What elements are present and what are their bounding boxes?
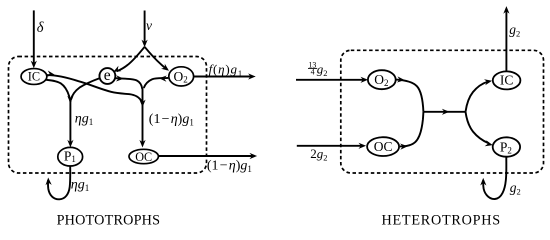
svg-text:e: e: [104, 67, 111, 84]
wire O2r to junction: [396, 80, 424, 112]
wire P2 self loop: [483, 157, 506, 199]
node O2 left: [169, 67, 194, 86]
svg-text:OC: OC: [135, 150, 152, 164]
node P2: [493, 137, 520, 156]
wire IC to P1: [44, 80, 70, 102]
wire 2 g2 input: [297, 145, 363, 147]
svg-text:ηg1: ηg1: [75, 112, 93, 128]
wire nu input: [144, 11, 146, 45]
svg-text:IC: IC: [500, 72, 514, 87]
node e: [99, 68, 115, 84]
wire delta input: [33, 10, 35, 65]
wire IC up export g2: [505, 10, 507, 72]
wire nu to e: [117, 47, 145, 71]
label 13/4 g2: [308, 60, 328, 78]
svg-text:δ: δ: [37, 20, 44, 36]
wire P1 self loop: [48, 165, 70, 199]
wire e to OC: [114, 78, 142, 89]
svg-text:IC: IC: [28, 70, 40, 84]
wire junction to P2: [466, 112, 489, 144]
wire e to P1: [71, 78, 100, 100]
wire OC export (1-eta)g1: [158, 155, 254, 157]
svg-text:(1 − η)g1: (1 − η)g1: [149, 112, 194, 128]
dashed box HETEROTROPHS: [341, 50, 544, 173]
svg-text:(1 − η)g1: (1 − η)g1: [207, 159, 252, 175]
node IC: [21, 69, 47, 85]
wire IC to OC sweep: [46, 75, 142, 103]
wire (1-eta)g1 vertical to OC: [142, 88, 144, 145]
svg-text:HETEROTROPHS: HETEROTROPHS: [382, 212, 501, 228]
wire eta-g1 vertical to P1: [69, 99, 71, 145]
svg-text:2g2: 2g2: [310, 146, 327, 163]
svg-text:OC: OC: [374, 139, 393, 154]
node OC left: [129, 149, 158, 163]
node P1: [58, 147, 83, 166]
svg-text:ηg1: ηg1: [71, 178, 89, 194]
wire 13/4 g2 input: [296, 79, 365, 81]
svg-text:4: 4: [311, 68, 315, 77]
wire junction horizontal: [423, 111, 465, 113]
wire junction to ICr: [466, 82, 488, 112]
svg-text:ν: ν: [146, 18, 152, 33]
wire nu to O2: [145, 47, 168, 70]
wire OCr to junction: [400, 112, 423, 147]
svg-text:g2: g2: [509, 22, 520, 39]
wire O2 to OC: [144, 78, 169, 88]
node O2 right: [368, 70, 396, 89]
svg-text:PHOTOTROPHS: PHOTOTROPHS: [57, 212, 161, 228]
wire O2 export f(eta)g1: [194, 76, 253, 78]
svg-text:g2: g2: [510, 180, 521, 197]
svg-text:f(η)g1: f(η)g1: [209, 61, 243, 78]
dashed box PHOTOTROPHS: [9, 57, 207, 174]
node OC right: [367, 137, 399, 156]
node IC right: [493, 71, 521, 89]
svg-text:g2: g2: [317, 61, 328, 78]
